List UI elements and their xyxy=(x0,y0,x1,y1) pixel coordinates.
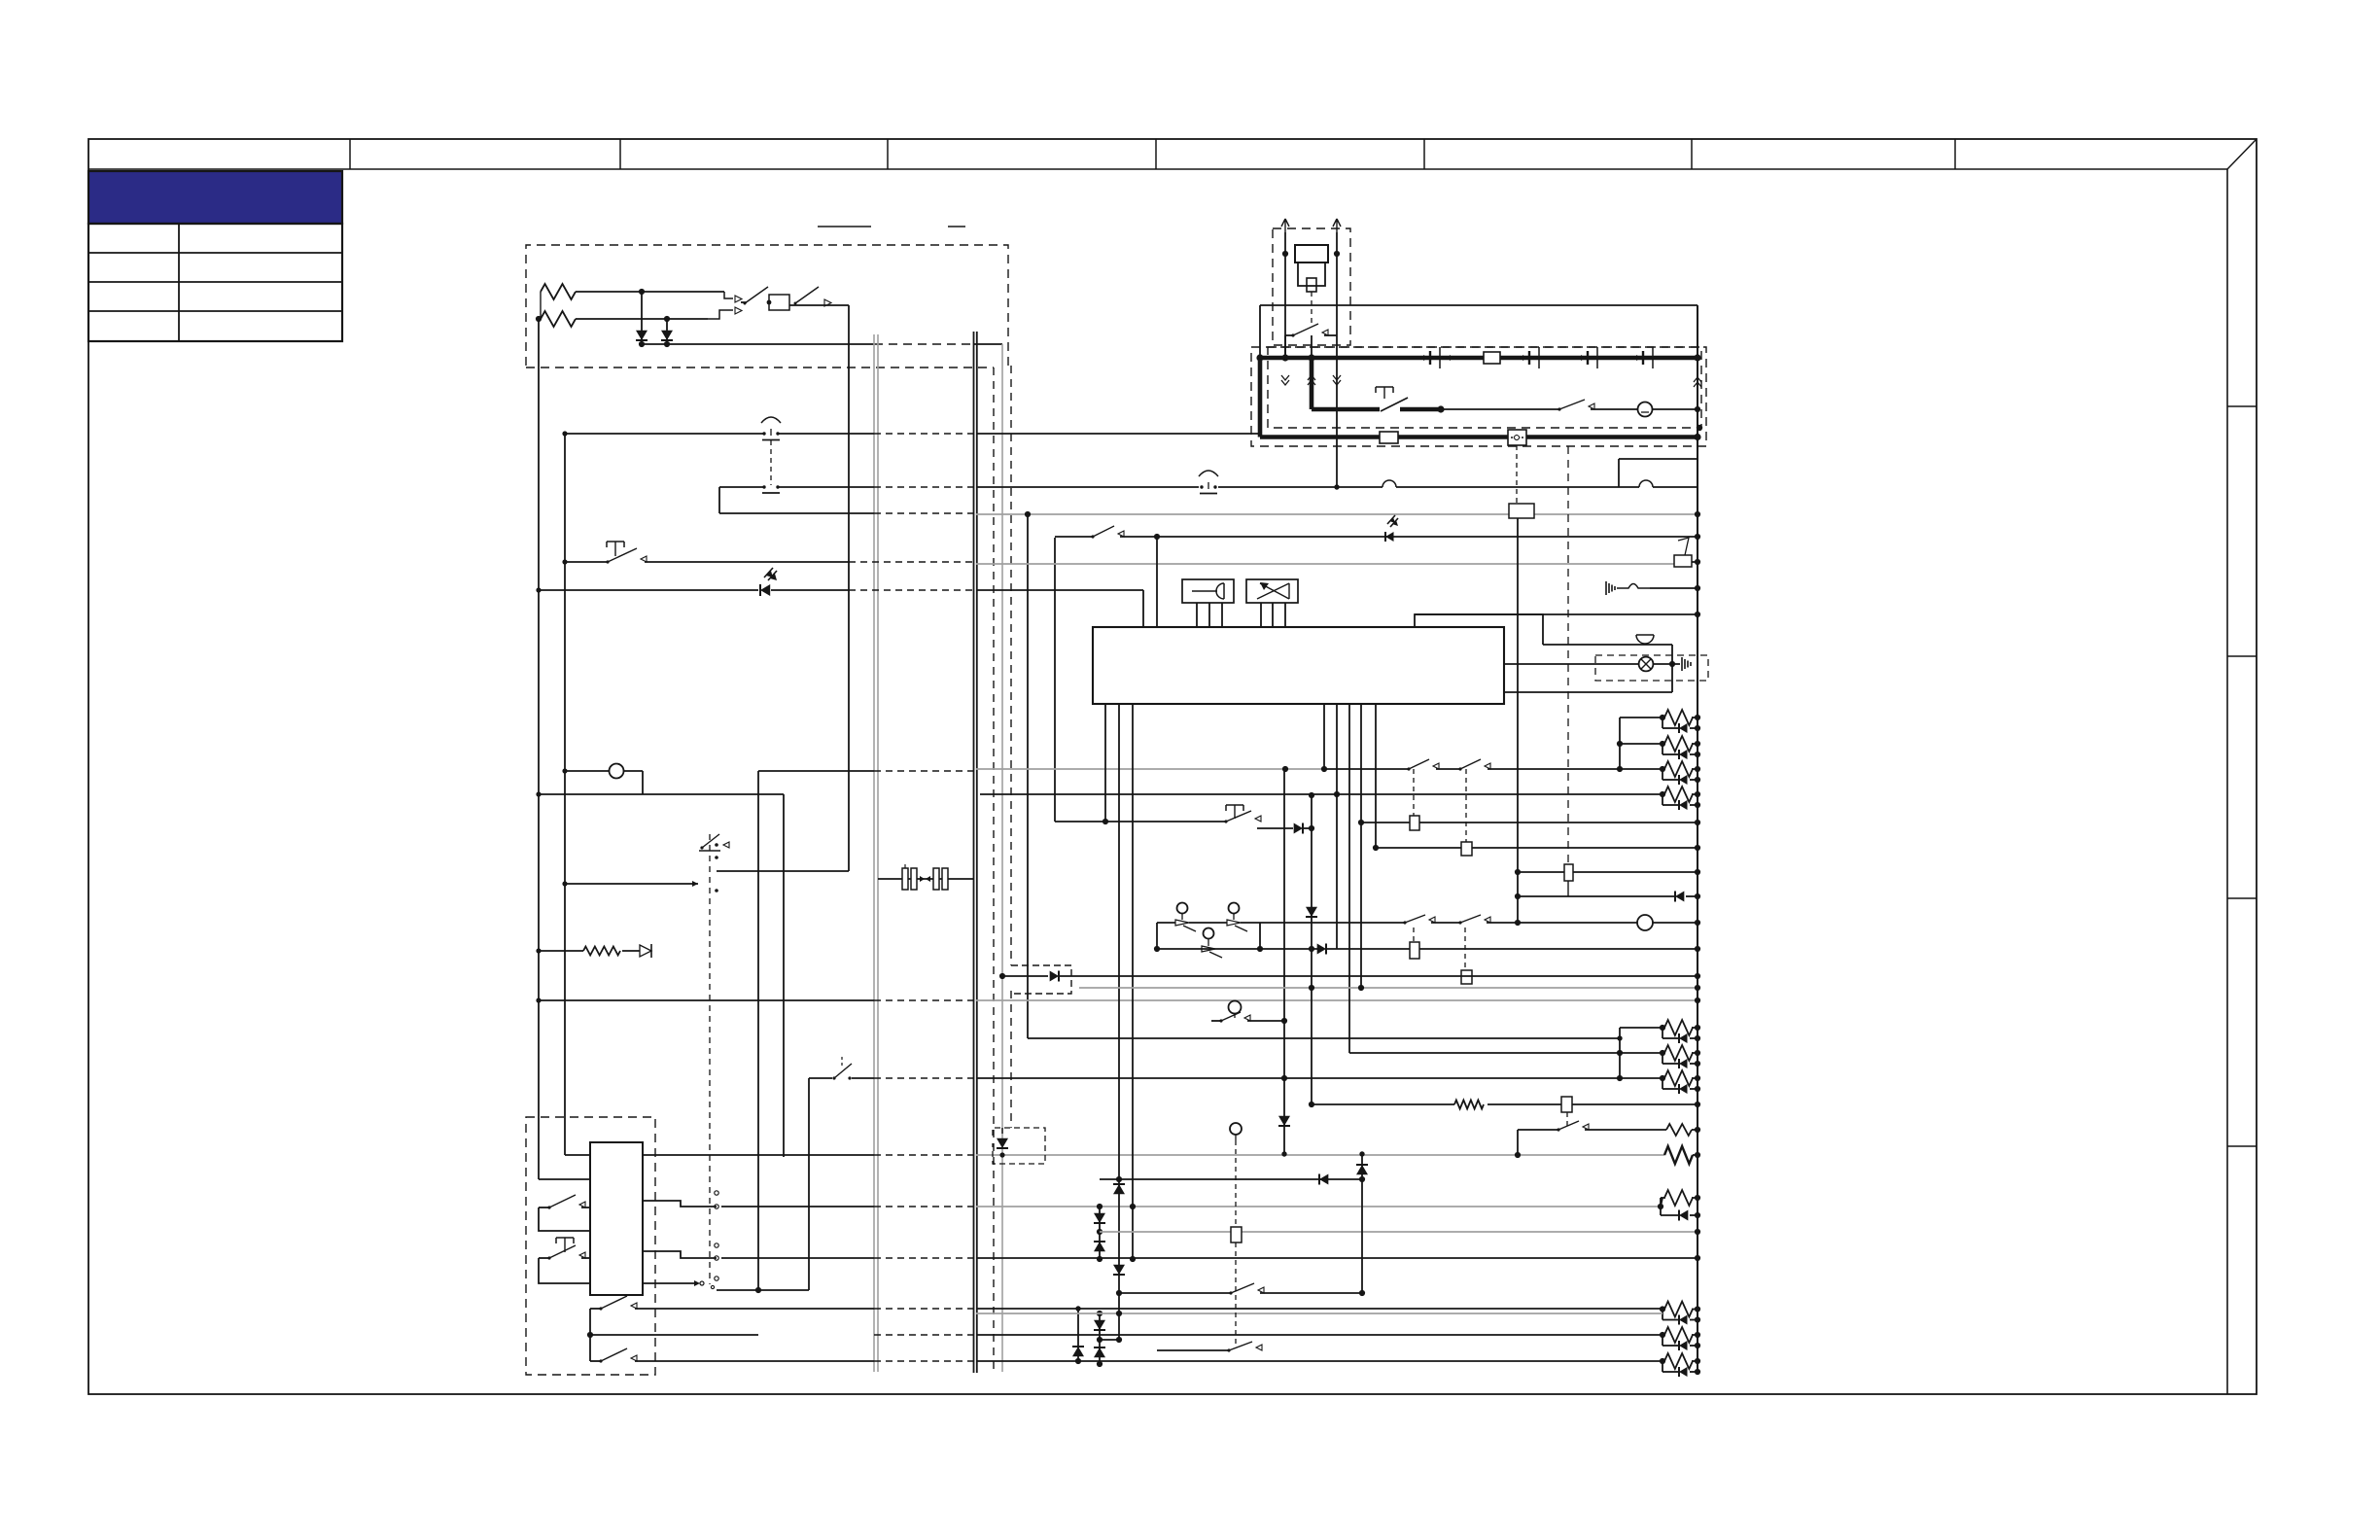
switch SD xyxy=(1403,915,1460,925)
diode D19 xyxy=(1319,1174,1328,1185)
resistor R3 xyxy=(536,947,640,956)
vertical x1401 xyxy=(1359,1151,1365,1296)
lamp L1 xyxy=(562,764,643,779)
switch S7 xyxy=(590,1348,874,1363)
resistor R1 (fusible link) xyxy=(541,284,576,299)
diode D17 xyxy=(1113,1184,1125,1194)
dome symbol xyxy=(1636,635,1654,644)
power resistor W1 xyxy=(1664,1146,1700,1164)
connector P1 housing xyxy=(708,292,742,319)
corner diagonal xyxy=(2227,139,2257,169)
diode D11 xyxy=(1050,971,1700,982)
switch S1 lever xyxy=(744,287,769,305)
switch SF xyxy=(1515,1121,1589,1158)
dashed link xyxy=(1311,292,1312,324)
dashed enclosure alternator xyxy=(1273,228,1350,345)
wire y578 left xyxy=(562,559,608,564)
stub x1349b xyxy=(1311,335,1312,358)
glow plug pair 5 xyxy=(1620,1020,1700,1043)
gray wire y1029 xyxy=(976,997,1700,1003)
ground fuse link xyxy=(1606,581,1700,595)
thick wire y421 xyxy=(1312,407,1380,412)
vertical x780 xyxy=(757,771,759,1290)
wire y505 to step xyxy=(1218,480,1619,487)
diode D9 xyxy=(1317,944,1700,955)
vertical x740 xyxy=(718,487,720,513)
stop switch S10 xyxy=(1224,805,1293,828)
dashed trunk x1040 upper xyxy=(1010,366,1012,965)
ECU main block U1 xyxy=(1093,627,1504,704)
wire 581 into block xyxy=(565,1154,590,1156)
switch SC xyxy=(1202,946,1222,958)
gray wire y1351 xyxy=(976,1311,1662,1316)
ECU pin x1375b xyxy=(1334,704,1340,949)
dashed link K8 xyxy=(1566,1112,1568,1126)
battery connector ticks 2 xyxy=(1522,347,1539,368)
vertical x1131a xyxy=(1097,1204,1102,1262)
column connector crossbar xyxy=(699,834,729,851)
ECU pin x1362 xyxy=(1323,704,1325,769)
inline connector CN2 xyxy=(926,868,948,890)
relay coil K7 xyxy=(1461,970,1472,984)
ECU pin y683 xyxy=(1504,663,1639,665)
chevron x1375 xyxy=(1333,375,1341,385)
wire y552 xyxy=(1055,526,1700,540)
wire y505 stub xyxy=(719,486,764,488)
table column divider xyxy=(178,224,180,341)
dashed link K6 xyxy=(1413,927,1415,942)
left bus x581 xyxy=(564,434,566,1155)
vertical x1720 xyxy=(1669,645,1675,692)
wire y1330 xyxy=(1119,1283,1362,1295)
battery connector ticks 4 xyxy=(1636,347,1653,368)
B+ arrow right xyxy=(1333,219,1341,232)
diode D1 xyxy=(636,292,647,347)
wire y1378 xyxy=(1100,1339,1119,1341)
diode D14 xyxy=(1094,1242,1105,1251)
ECU pin x1400 xyxy=(1358,704,1364,988)
wire y683 xyxy=(1653,663,1680,665)
ground G2 xyxy=(1682,657,1691,671)
gray trunk xa xyxy=(873,334,875,1372)
glow group1 feed vertical xyxy=(1617,717,1623,772)
glow plug pair 7 xyxy=(1620,1070,1700,1094)
wire left drop xyxy=(540,292,542,319)
ECU pin x1415 xyxy=(1373,704,1379,851)
sensor switch circle B xyxy=(1229,903,1240,921)
wire y1375 right xyxy=(976,1334,1662,1336)
vertical x806 xyxy=(783,794,785,1157)
thick bus y368 xyxy=(1256,354,1700,361)
chevron x1746 xyxy=(1694,377,1701,387)
LED D6 xyxy=(760,568,777,596)
wire y872 xyxy=(1376,845,1700,851)
switch S4 xyxy=(539,1195,590,1231)
title strip divider 5 xyxy=(1423,139,1425,169)
drop x1176 to ECU xyxy=(1142,590,1144,627)
blue title banner xyxy=(88,171,342,224)
wire y1320 right xyxy=(643,1280,704,1286)
starter button T3 xyxy=(1376,387,1408,411)
relay coil K5 xyxy=(1564,864,1573,881)
title strip divider 7 xyxy=(1954,139,1956,169)
wire y421 right xyxy=(1441,408,1559,410)
gray wire y580 xyxy=(976,563,1674,565)
ECU tab xyxy=(1415,614,1543,645)
vertical x832 xyxy=(808,1078,810,1290)
diode stub x1109 xyxy=(1072,1306,1084,1364)
starter motor M1 xyxy=(1638,402,1653,417)
diode D2 xyxy=(661,316,673,347)
page border frame xyxy=(88,139,2257,1394)
glow plug pair 3 xyxy=(1620,761,1700,785)
wire y446 dashed xyxy=(874,433,976,435)
diode D18 xyxy=(1113,1265,1125,1275)
wire y1188 right xyxy=(643,1154,874,1156)
wire y1400 right xyxy=(976,1360,1662,1362)
LED D5 xyxy=(1385,515,1398,542)
dashed trunk x1040 mid xyxy=(1010,991,1012,1128)
wire y1241 dashed xyxy=(874,1206,976,1207)
wire R1 to node xyxy=(576,291,724,293)
resistor R5 xyxy=(1585,1124,1700,1136)
dashed trunk x1612 xyxy=(1567,446,1569,864)
connector C3 xyxy=(1199,471,1218,494)
wire diode bus xyxy=(642,343,874,345)
diode D21 xyxy=(1278,1116,1290,1126)
link K5 xyxy=(1567,881,1569,896)
switch S2 lever xyxy=(794,287,832,306)
diode D16 xyxy=(1094,1347,1105,1357)
sensor switch circle C xyxy=(1204,928,1214,947)
wire y1373 xyxy=(590,1334,758,1336)
glow plug pair 1 xyxy=(1620,710,1700,733)
ECU pin x1151 xyxy=(1116,704,1122,1343)
switch S6 xyxy=(590,1296,874,1361)
label rule 1 xyxy=(818,226,871,227)
wire y1327 xyxy=(711,1285,809,1293)
switch S5 xyxy=(539,1245,590,1283)
fuse F1 xyxy=(1484,352,1500,364)
bus wire x873 xyxy=(848,305,850,871)
chevron x1322 xyxy=(1281,375,1289,385)
relay coil K8 xyxy=(1561,1097,1700,1112)
circle switch D xyxy=(1230,1123,1242,1140)
wire y1294 a xyxy=(643,1251,718,1260)
lamp L3 xyxy=(1515,915,1700,930)
wire y818 xyxy=(980,793,1663,795)
diode D13 xyxy=(1094,1213,1105,1223)
table row line 1 xyxy=(88,252,342,254)
wire y1029 left xyxy=(536,997,874,1002)
pin marks xyxy=(715,843,718,892)
table row line 2 xyxy=(88,281,342,283)
glow plug pair 10 xyxy=(1660,1327,1700,1350)
right margin divider 3 xyxy=(2227,897,2257,899)
node B dot xyxy=(536,316,542,322)
step vertical x1665 xyxy=(1618,459,1620,487)
glow plug pair 9 xyxy=(1660,1302,1700,1325)
title strip divider 4 xyxy=(1155,139,1157,169)
washer icon box xyxy=(1246,579,1298,603)
wire y1109 dashed xyxy=(874,1077,976,1079)
relay box K4 xyxy=(1509,504,1534,518)
dashed link K6b xyxy=(1464,927,1466,970)
wire to bus 873 xyxy=(789,304,849,306)
wire y1188 dashed xyxy=(874,1154,976,1156)
wire y605 right xyxy=(976,589,1143,591)
node A dot xyxy=(639,289,645,295)
resistor R2 (fusible link) xyxy=(541,311,576,327)
title strip divider 3 xyxy=(887,139,889,169)
gray trunk x1031 xyxy=(1001,344,1003,1372)
dashed link K3 xyxy=(1465,769,1467,842)
connector C2 xyxy=(762,485,780,493)
wire y446 left xyxy=(562,431,764,436)
wire y791 switches xyxy=(1324,759,1620,771)
wire y1109 switch xyxy=(809,1057,874,1080)
wire y605 dashed xyxy=(849,589,976,591)
wire y663 xyxy=(1543,644,1672,646)
wire y1029 dashed xyxy=(874,999,976,1001)
wire y1241 a xyxy=(643,1201,718,1208)
resistor-diode pair 8 xyxy=(1658,1198,1663,1209)
vertical x1321 xyxy=(1281,769,1286,1157)
title strip divider 2 xyxy=(619,139,621,169)
label rule 2 xyxy=(948,226,965,227)
wire R2 right xyxy=(576,318,708,320)
main right bus x1746 xyxy=(1697,305,1698,1372)
wire y1294 b xyxy=(721,1257,874,1259)
switch S3 xyxy=(606,542,849,564)
battery connector ticks 3 xyxy=(1581,347,1597,368)
wire y314 top xyxy=(1260,304,1697,306)
res-diode y1232 xyxy=(1661,1190,1700,1221)
switch SA xyxy=(1175,920,1196,931)
glow plug pair 11 xyxy=(1660,1353,1700,1377)
regulator block xyxy=(1307,278,1316,292)
wire y843 xyxy=(1055,821,1226,822)
wire y532 left xyxy=(719,512,874,514)
gray wire y1016 xyxy=(1079,985,1700,991)
dashed link K2 xyxy=(1413,769,1415,816)
wire y1375 dashed xyxy=(874,1334,976,1336)
title strip bottom rule xyxy=(88,168,2227,170)
hop bump y505 xyxy=(1619,480,1697,487)
wire y793 dashed xyxy=(874,770,976,772)
wire y532 dashed xyxy=(874,512,976,514)
dashed link K4 xyxy=(1516,445,1518,504)
wire y605 xyxy=(536,587,758,592)
wire y1068 xyxy=(1028,1035,1623,1040)
glow plug pair 6 xyxy=(1349,1045,1700,1068)
wire y1346 dashed xyxy=(874,1308,976,1310)
ECU pin x1388 xyxy=(1348,704,1350,1053)
right margin divider 1 xyxy=(2227,405,2257,407)
wire y1136 xyxy=(1309,1102,1454,1107)
arrow ground xyxy=(640,944,651,958)
wire y712 xyxy=(1504,691,1672,693)
diode D8 xyxy=(1675,892,1700,902)
wire y632 xyxy=(1415,612,1700,617)
dot y447b xyxy=(1697,425,1702,431)
lever sender symbol xyxy=(1674,538,1700,567)
wire y605 mid xyxy=(771,589,849,591)
lamp loop vertical xyxy=(642,771,644,794)
gray wire y1188 xyxy=(976,1154,1664,1156)
trunk bridge y904 xyxy=(878,878,974,880)
sensor loop xyxy=(1157,923,1260,949)
vertical x1085 xyxy=(1054,538,1056,822)
diode D12 xyxy=(997,1128,1008,1158)
left bus x554 xyxy=(538,319,540,1179)
wire y817 xyxy=(536,791,643,796)
wire y578 dashed xyxy=(849,561,976,563)
stub x1322b xyxy=(1284,335,1286,358)
wire y1003 xyxy=(999,973,1048,979)
trunk xc xyxy=(973,332,975,1373)
table row line 3 xyxy=(88,310,342,312)
dashed enclosure lamp xyxy=(1595,655,1708,681)
diode D7 xyxy=(1294,823,1314,834)
wire y421 to bus xyxy=(1653,406,1700,412)
connector pin link C1-C2 xyxy=(770,440,772,485)
wire y843 right xyxy=(1361,820,1700,825)
vertical x1322 xyxy=(1282,232,1288,358)
alternator G1 xyxy=(1295,245,1328,262)
relay coil K2 xyxy=(1410,816,1419,830)
dashed trunk x1022 xyxy=(993,367,995,1371)
relay coil K6 xyxy=(1410,942,1419,959)
gray wire y1267 xyxy=(1100,1229,1700,1235)
wire y1213 xyxy=(1100,1176,1365,1182)
gray trunk xb xyxy=(877,334,879,1372)
wire y446 mid xyxy=(778,433,874,435)
wire y1241 b xyxy=(721,1206,874,1207)
wire y1294 right xyxy=(976,1255,1700,1261)
indicator lamp L2 xyxy=(1639,657,1654,672)
relay coil K3 xyxy=(1461,842,1472,856)
vertical x1561 xyxy=(1515,518,1521,923)
dashed link K9 xyxy=(1235,1140,1237,1227)
dashed z-box A xyxy=(1011,965,1071,994)
wire y505 dashed xyxy=(874,486,976,488)
chevron x1349 xyxy=(1308,375,1315,385)
thick vertical x1349 xyxy=(1310,358,1314,409)
horn icon box xyxy=(1182,579,1234,603)
wire y897 xyxy=(1518,869,1700,875)
gray wire y1241 xyxy=(976,1206,1661,1207)
flasher unit xyxy=(1508,430,1526,445)
relay coil K9 xyxy=(1231,1227,1242,1242)
title strip divider 1 xyxy=(349,139,351,169)
wire y947 xyxy=(1260,922,1405,924)
pin circles col xyxy=(715,1191,718,1280)
vertical x1349b xyxy=(1309,792,1314,1104)
inline connector CN1 xyxy=(902,864,925,890)
switch SE xyxy=(1458,915,1637,925)
controller block K1 xyxy=(590,1142,643,1295)
wire y1294 dashed xyxy=(874,1257,976,1259)
switch SG xyxy=(1157,1342,1262,1352)
wire y1346 right xyxy=(976,1308,1662,1310)
vertical x1131b xyxy=(1097,1311,1102,1367)
node S6 dot xyxy=(587,1332,593,1338)
gray wire y529 xyxy=(976,511,1700,517)
glow plug pair 2 xyxy=(1620,736,1700,759)
wire y472 xyxy=(1619,458,1697,460)
dashed enclosure bus inner xyxy=(1268,347,1701,428)
wire y421 mid xyxy=(1400,405,1445,412)
diode D10 xyxy=(1306,907,1317,917)
battery connector ticks 1 xyxy=(1423,347,1451,368)
wire y817 to x806 xyxy=(643,793,784,795)
wire y505 mid xyxy=(778,486,874,488)
gray wire y791 xyxy=(976,766,1327,772)
title strip divider 6 xyxy=(1691,139,1693,169)
switch S8 xyxy=(1285,324,1337,337)
sensor switch circle A xyxy=(1177,903,1188,921)
wire 554 into block xyxy=(539,1178,590,1180)
horn box legs xyxy=(1197,603,1222,627)
thick vertical x1296b xyxy=(1258,358,1263,437)
wire y793 b xyxy=(758,770,874,772)
fuse F2 xyxy=(1380,432,1398,443)
wire y1400 dashed xyxy=(874,1360,976,1362)
dashed enclosure battery/fusebox xyxy=(526,245,1008,367)
wire y922 xyxy=(1518,895,1675,897)
dashed enclosure bus outer xyxy=(1251,347,1706,446)
inner right border line xyxy=(2226,169,2228,1394)
switch SB xyxy=(1227,920,1247,931)
wire y1109 xyxy=(976,1075,1620,1081)
dashed enclosure lower-left xyxy=(526,1117,655,1375)
vertical x1375 xyxy=(1334,232,1340,490)
right margin divider 4 xyxy=(2227,1145,2257,1147)
dashed pin column x730 xyxy=(709,834,711,1284)
wire switch S1 top xyxy=(741,301,747,303)
resistor R4 xyxy=(1454,1101,1561,1109)
wire y446 right xyxy=(976,433,1260,435)
wire y909 xyxy=(562,881,698,887)
B+ arrow left xyxy=(1281,219,1289,232)
diode D15 xyxy=(1094,1320,1105,1330)
dashed stub y355 xyxy=(874,343,1002,345)
glow group2 feed vertical xyxy=(1617,1028,1623,1081)
vertical x1296 thin xyxy=(1259,305,1261,358)
vertical x1057 xyxy=(1025,511,1031,1038)
washer box legs xyxy=(1261,603,1285,627)
pushbutton T2 xyxy=(556,1238,574,1252)
dashed link K9b xyxy=(1235,1242,1237,1346)
connector P2 housing xyxy=(767,295,789,310)
ECU pin x1165 xyxy=(1130,704,1136,1262)
wire y976 xyxy=(1154,946,1317,952)
dashed z-box B xyxy=(993,1128,1045,1164)
diode D20 xyxy=(1356,1165,1368,1174)
revision table outline xyxy=(88,224,342,341)
drop x1190 to ECU xyxy=(1156,537,1158,627)
alt leg left xyxy=(1298,262,1325,286)
right margin divider 2 xyxy=(2227,655,2257,657)
ECU pin x1137 xyxy=(1102,704,1108,824)
circle switch E xyxy=(1211,1001,1287,1025)
trunk xd xyxy=(976,332,978,1373)
glow plug pair 4 xyxy=(1660,787,1700,810)
thick bus y449 xyxy=(1260,434,1701,440)
wire y896 xyxy=(717,870,849,872)
switch S9 xyxy=(1557,400,1638,411)
